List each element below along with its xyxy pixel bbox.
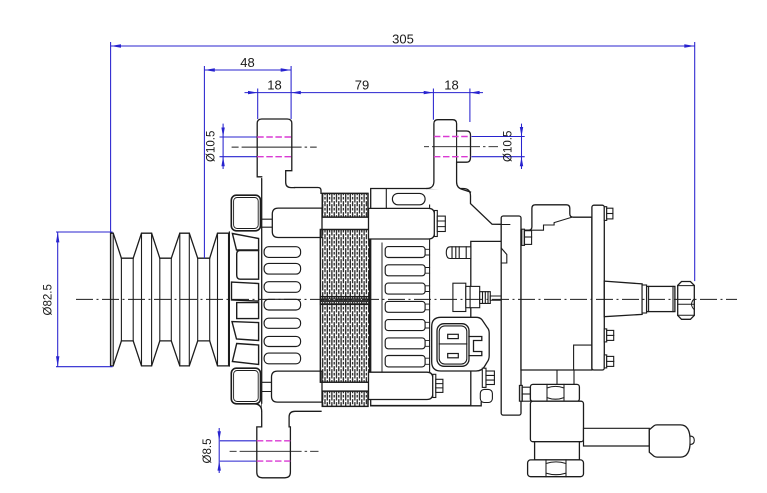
front lug (257, 119, 294, 188)
bottom lug centerline (230, 450, 319, 452)
rear housing (371, 189, 502, 406)
svg-text:Ø10.5: Ø10.5 (503, 131, 515, 162)
stator core (320, 193, 369, 406)
pump plate bolt bottom (519, 385, 530, 401)
dim Ø82.5: ext + dimline (56, 232, 113, 367)
connector (432, 317, 490, 371)
Ø8.5 arrows (218, 431, 221, 441)
dim 305 ext lines (111, 42, 695, 281)
through-bolt bottom front head (262, 371, 322, 402)
arrows (56, 44, 695, 470)
front housing body (262, 188, 321, 412)
pipe end connector (649, 425, 690, 457)
lower rear tab (480, 389, 492, 402)
hole left lug (257, 137, 292, 157)
18/79 arrows (248, 91, 258, 94)
pump mounting plate (501, 216, 521, 415)
front housing vent slots (264, 247, 301, 364)
through-bolt top front head (262, 208, 322, 237)
fan blade 4 (237, 303, 259, 319)
fan blade 2 (237, 251, 259, 280)
305 arrows (111, 44, 121, 47)
hex fitting 2 (528, 460, 584, 477)
stator bottom winding (322, 391, 368, 406)
pump plate bolt top (522, 229, 532, 245)
through-bolt top rear body (369, 208, 446, 239)
svg-text:Ø82.5: Ø82.5 (43, 284, 55, 315)
48 arrows (204, 68, 214, 71)
pump rear cover (592, 205, 604, 370)
pump shaft (604, 281, 694, 319)
shaft end hex nut (678, 282, 695, 320)
ext lines lugs (258, 66, 470, 122)
rear lug (427, 120, 471, 192)
valve block (530, 401, 583, 442)
fan blade 6 (232, 344, 258, 365)
dim Ø10.5 left: ext + dimline (220, 124, 257, 169)
left lug centerline (232, 146, 317, 148)
rear vent slots (385, 193, 425, 367)
svg-text:79: 79 (355, 78, 369, 93)
fan blade 3 (232, 282, 259, 301)
rotor shaft rear end (453, 283, 503, 311)
lower neck (535, 442, 580, 460)
hex fitting 1 (530, 384, 579, 401)
stator mid dense band (320, 297, 369, 305)
Ø10.5 left arrows (221, 128, 224, 138)
main centerline (76, 298, 737, 300)
Ø10.5 right arrows (520, 127, 523, 137)
rear slot ribs (425, 249, 430, 364)
dim Ø10.5 right: ext + dimline (472, 124, 525, 169)
pump right bolts (604, 207, 613, 368)
fan blade 1 (232, 234, 258, 251)
svg-text:48: 48 (240, 55, 254, 70)
fan blade 5 (232, 322, 259, 341)
pump body (521, 205, 604, 370)
through-bolt bottom rear body (369, 372, 443, 399)
svg-text:18: 18 (267, 78, 281, 93)
dim Ø8.5: ext + dimline (219, 428, 256, 473)
svg-text:Ø10.5: Ø10.5 (206, 131, 218, 162)
svg-text:305: 305 (392, 32, 414, 47)
svg-text:Ø8.5: Ø8.5 (202, 439, 214, 464)
lower rear stud (482, 368, 494, 387)
fan top nut (231, 195, 260, 231)
pipe (584, 428, 650, 446)
rear stud (B+ terminal screw) (446, 247, 471, 259)
hole right lug (434, 137, 471, 157)
front foot (254, 404, 321, 478)
dim 18-79-18 line (245, 92, 484, 94)
svg-text:18: 18 (444, 78, 458, 93)
dim 48 ext line (203, 66, 205, 258)
hole bottom lug (257, 441, 291, 461)
fan column (229, 232, 258, 366)
dim 305 line (111, 45, 695, 47)
fan bottom nut (231, 368, 260, 404)
stator top winding (322, 193, 368, 217)
right lug centerline (424, 146, 498, 148)
dim 48 line (204, 69, 291, 71)
Ø82.5 arrows (56, 232, 59, 242)
bottom fitting stack (528, 370, 695, 477)
pulley (111, 233, 229, 366)
